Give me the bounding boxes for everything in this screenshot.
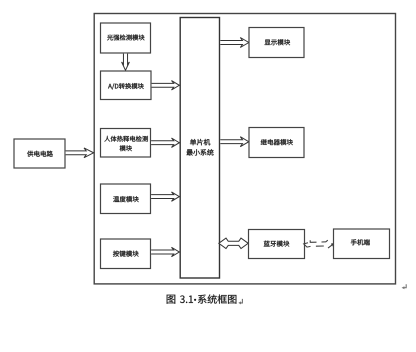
arrow 温度模块 to 单片机最小系统 [151,192,179,201]
text 继电器模块 [261,139,293,145]
box 人体热释电检测模块 [101,129,151,158]
text 人体热释电检测 line1 [104,136,147,142]
arrow A/D转换模块 to 单片机最小系统 [152,81,180,90]
box 手机端 [334,229,390,259]
arrow 人体热释电检测模块 to 单片机最小系统 [151,138,179,147]
arrow 光强检测模块 to A/D转换模块 (down) [122,54,130,71]
text 最小系统 line2 [187,149,214,155]
box 供电电路 [14,139,65,168]
outer frame 系统框图 boundary [94,14,395,284]
box 显示模块 [249,28,304,58]
paragraph mark after caption [238,299,242,305]
arrow 单片机最小系统 to 继电器模块 [220,137,249,147]
text 模块 line2 [120,145,132,151]
box 光强检测模块 [101,23,151,53]
box 温度模块 [101,184,151,214]
paragraph mark after frame (bottom right) [402,284,407,289]
text 供电电路 [27,151,53,157]
arrow 单片机最小系统 to 显示模块 [220,38,249,48]
text 温度模块 [113,196,139,202]
box 按键模块 [101,239,151,269]
wireless dashed link 蓝牙模块 to 手机端 [304,240,334,248]
text 蓝牙模块 [264,241,289,247]
text 手机端 [351,239,370,245]
arrow 供电电路 to frame [66,148,94,158]
text 显示模块 [265,39,291,45]
box A/D转换模块 [101,71,152,100]
text 光强检测模块 [107,35,144,41]
text 按键模块 [113,251,139,257]
box 蓝牙模块 [249,230,305,259]
arrow 按键模块 to 单片机最小系统 [151,247,179,256]
text 单片机 line1 [190,139,210,145]
double arrow 单片机最小系统 to 蓝牙模块 [219,238,248,248]
box 继电器模块 [249,128,304,158]
text A/D转换模块 [108,83,144,89]
box 单片机最小系统 (central MCU) [180,18,219,279]
caption 图 3.1 系统框图 [167,294,237,303]
